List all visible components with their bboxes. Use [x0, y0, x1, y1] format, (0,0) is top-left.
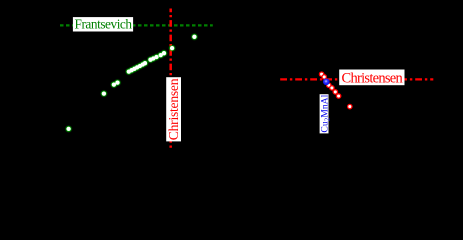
red data ring 3 — [327, 83, 331, 87]
green data point 17 glow — [169, 45, 175, 51]
Cu2MnAl label box — [320, 94, 329, 133]
green data point 15 glow — [158, 52, 164, 58]
svg-text:Cu2MnAl: Cu2MnAl — [319, 94, 331, 132]
green data point 18 glow — [192, 34, 198, 40]
green data point 1 core — [66, 127, 70, 131]
Christensen criterion line right (red dash-dot horizontal) — [280, 78, 433, 80]
green data point 10 core — [141, 62, 145, 66]
green data point 13 glow — [150, 56, 156, 62]
green data point 11 glow — [142, 60, 148, 66]
green data point 6 glow — [129, 67, 135, 73]
Christensen label box right — [339, 70, 404, 86]
green data point 17 core — [170, 46, 174, 50]
green data point 8 glow — [134, 65, 140, 71]
svg-text:Frantsevich: Frantsevich — [75, 16, 133, 31]
green data point 5 core — [127, 69, 131, 73]
green data point 16 glow — [161, 50, 167, 56]
green data point 1 glow — [66, 126, 72, 132]
green data points glow layer — [66, 34, 198, 132]
green data point 7 core — [132, 67, 136, 71]
svg-text:Christensen: Christensen — [166, 78, 181, 140]
green data point 5 glow — [126, 69, 132, 75]
blue data point Cu2MnAl — [323, 78, 330, 85]
green data point 12 glow — [148, 57, 154, 63]
green data point 9 core — [138, 64, 142, 68]
Christensen criterion line left (red dash-dot vertical) — [169, 9, 172, 149]
green data point 3 core — [112, 82, 116, 86]
red data ring 5 — [333, 90, 337, 94]
green data point 6 core — [129, 68, 133, 72]
green data point 16 core — [162, 51, 166, 55]
green data point 8 core — [135, 65, 139, 69]
svg-text:Christensen: Christensen — [342, 71, 404, 87]
red data ring 2 — [322, 75, 326, 79]
red data ring 4 — [330, 86, 334, 90]
green data points white core layer — [66, 35, 196, 131]
Frantsevich label box — [73, 17, 133, 31]
green data point 12 core — [148, 58, 152, 62]
green data point 7 glow — [132, 66, 138, 72]
green data point 9 glow — [137, 63, 143, 69]
green data point 2 glow — [101, 91, 107, 97]
green data point 3 glow — [111, 82, 117, 88]
green data point 15 core — [159, 53, 163, 57]
green data point 14 glow — [154, 54, 160, 60]
red data ring 1 — [319, 72, 323, 76]
green data point 10 glow — [140, 62, 146, 68]
green data point 14 core — [154, 55, 158, 59]
Frantsevich criterion line (green dashed horizontal) — [60, 24, 213, 26]
green data point 11 core — [143, 61, 147, 65]
red data ring 7 — [348, 104, 352, 108]
green data point 2 core — [102, 91, 106, 95]
green data point 4 core — [115, 80, 119, 84]
Christensen label box left — [166, 77, 181, 141]
green data point 13 core — [151, 56, 155, 60]
red data ring 6 — [336, 94, 340, 98]
green data point 4 glow — [115, 80, 121, 86]
green data point 18 core — [192, 35, 196, 39]
